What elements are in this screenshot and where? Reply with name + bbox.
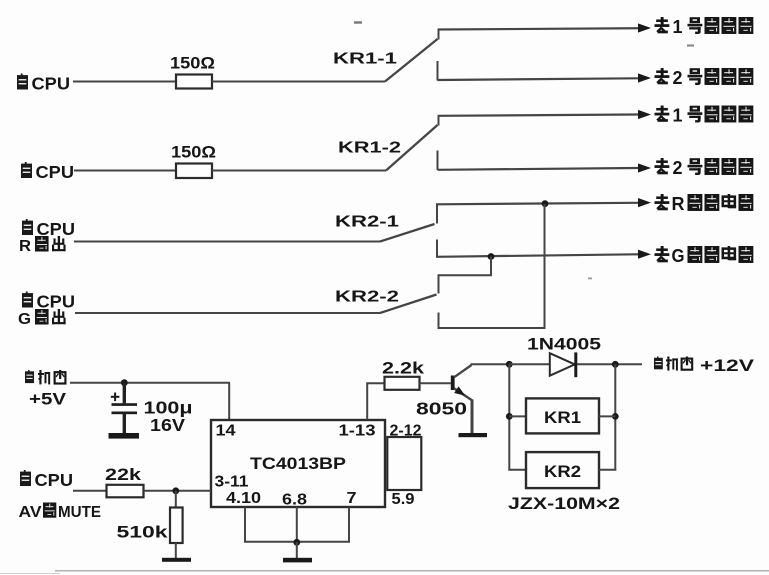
node label 自CPU row1 xyxy=(17,74,70,94)
junction node below pin 6.8 xyxy=(293,539,300,546)
relay coil KR1 body xyxy=(526,398,599,433)
resistor R3 2.2k body xyxy=(385,377,420,390)
svg-text:2.2k: 2.2k xyxy=(382,360,425,378)
type label JZX-10M×2 xyxy=(508,494,620,513)
IC bottom pin wires 4.10 / 6.8 / 7 xyxy=(244,507,350,542)
transistor Q1 8050 base bar xyxy=(451,376,455,391)
svg-text:2-12: 2-12 xyxy=(390,423,422,440)
+5V rail wire xyxy=(70,383,230,420)
pin label 1-13 xyxy=(339,423,376,440)
pin label 4.10 xyxy=(226,490,261,507)
svg-text:5.9: 5.9 xyxy=(392,491,415,508)
pin label 5.9 xyxy=(392,491,415,508)
svg-text:22k: 22k xyxy=(105,466,142,484)
svg-text:G: G xyxy=(18,311,31,328)
svg-text:JZX-10M×2: JZX-10M×2 xyxy=(508,494,620,513)
value label 150Ω R2 xyxy=(171,144,216,162)
label KR1-1 xyxy=(333,51,397,68)
svg-text:R: R xyxy=(19,238,31,255)
svg-text:6.8: 6.8 xyxy=(282,492,307,509)
value label 510k xyxy=(117,524,169,542)
junction node at capacitor tap xyxy=(121,379,128,386)
capacitor polarity plus sign xyxy=(111,393,120,402)
svg-text:TC4013BP: TC4013BP xyxy=(250,454,346,473)
ground bar below Q1 emitter xyxy=(459,433,488,437)
relay contact KR2-2 blade xyxy=(380,295,437,314)
svg-text:AV: AV xyxy=(19,504,42,521)
KR2-2 lower contact and wire up to R display line xyxy=(438,204,545,329)
transistor Q1 collector xyxy=(454,364,510,377)
resistor R4 22k body xyxy=(107,485,144,498)
power label 自机内 +12V xyxy=(654,357,754,376)
IC name label TC4013BP xyxy=(250,454,346,473)
svg-text:R: R xyxy=(672,194,685,214)
net label 去1号存储器 row1 xyxy=(655,17,754,37)
svg-text:G: G xyxy=(672,246,685,266)
junction node on G display line xyxy=(488,253,495,260)
value label 2.2k xyxy=(382,360,425,378)
junction node right bus at KR1 xyxy=(612,413,619,420)
arrow to 去1号存储器 row1 xyxy=(638,23,651,32)
scan artifact speck right of KR1-1 xyxy=(687,44,694,46)
label KR1 xyxy=(544,409,581,427)
arrow to 去1号存储器 row2 xyxy=(638,110,651,119)
node label 自CPU AV或MUTE xyxy=(19,470,102,521)
value label 100μ xyxy=(144,398,193,418)
label KR2-2 xyxy=(335,289,399,306)
scan artifact smear bottom edge xyxy=(0,571,769,574)
svg-text:7: 7 xyxy=(347,490,357,507)
power label 自机内 +5V xyxy=(25,370,66,409)
resistor R2 150 ohm body xyxy=(176,164,212,179)
svg-text:KR2-2: KR2-2 xyxy=(335,289,399,306)
arrow to 去2号存储器 row1 xyxy=(638,73,651,82)
net label 去G屏显电路 xyxy=(655,246,754,266)
label 8050 xyxy=(416,399,467,419)
node label 自CPU R输出 xyxy=(19,219,75,255)
arrow to 去2号存储器 row2 xyxy=(638,163,651,172)
svg-text:MUTE: MUTE xyxy=(58,504,101,521)
svg-text:KR2: KR2 xyxy=(544,463,581,481)
right relay bus vertical wire xyxy=(599,364,616,470)
svg-text:CPU: CPU xyxy=(36,162,75,182)
label KR2-1 xyxy=(335,214,399,231)
wire R2 to KR1-2 pivot xyxy=(212,170,386,172)
label KR1-2 xyxy=(338,140,401,157)
wire pin 1-13 up to 2.2k resistor xyxy=(366,383,384,420)
relay coil KR2 body xyxy=(526,452,599,488)
pin label 6.8 xyxy=(282,492,307,509)
node label 自CPU G输出 xyxy=(18,292,75,329)
junction node on R display line xyxy=(542,200,549,207)
svg-text:KR1-1: KR1-1 xyxy=(333,51,397,68)
KR1-2 lower contact and wire to storage 2 xyxy=(438,151,640,171)
diode D1 1N4005 xyxy=(550,352,578,377)
wire CPU to 22k xyxy=(73,490,107,492)
svg-text:3-11: 3-11 xyxy=(215,474,249,491)
wire 22k to IC pin 3-11 xyxy=(144,490,212,492)
svg-text:150Ω: 150Ω xyxy=(171,144,216,162)
pin label 7 xyxy=(347,490,357,507)
svg-text:+12V: +12V xyxy=(700,357,754,375)
wire KR1 to right bus xyxy=(599,415,615,417)
wire row1 from CPU to R1 xyxy=(73,81,176,83)
ground bar below 510k xyxy=(162,558,191,562)
junction node left bus at KR1 xyxy=(506,413,513,420)
svg-text:4.10: 4.10 xyxy=(226,490,261,507)
wire loop pins 2-12 to 5-9 right of IC xyxy=(387,437,421,490)
KR1-1 lower contact and wire to storage 2 xyxy=(438,61,640,81)
svg-text:KR1-2: KR1-2 xyxy=(338,140,401,157)
junction node at 510k tap xyxy=(172,487,179,494)
relay contact KR1-1 blade xyxy=(385,39,438,82)
wire row3 from CPU to KR2-1 pivot xyxy=(74,241,380,243)
ground bar below IC xyxy=(283,558,312,563)
wire link G-line down to KR2-2 upper contact xyxy=(439,257,493,294)
net label 去R屏显电路 xyxy=(655,194,754,214)
wire left bus to KR1 xyxy=(509,415,526,417)
svg-text:1: 1 xyxy=(673,106,683,126)
svg-text:1: 1 xyxy=(673,17,683,37)
value label 150Ω R1 xyxy=(170,55,215,73)
arrow to 去R屏显电路 xyxy=(638,198,651,207)
svg-text:KR2-1: KR2-1 xyxy=(335,214,399,231)
arrow to 去G屏显电路 xyxy=(638,250,651,259)
svg-text:510k: 510k xyxy=(117,524,169,542)
wire row4 from CPU to KR2-2 pivot xyxy=(75,312,380,314)
wire 2.2k to Q1 base xyxy=(420,382,451,384)
value label 1N4005 xyxy=(527,335,601,354)
ground bar below capacitor xyxy=(109,433,140,439)
junction node collector to relay bus xyxy=(506,361,513,368)
svg-text:2: 2 xyxy=(673,68,683,88)
relay contact KR1-2 blade xyxy=(386,125,438,171)
net label 去2号存储器 row2 xyxy=(655,158,754,178)
pin label 3-11 xyxy=(215,474,249,491)
net label 去1号存储器 row2 xyxy=(655,106,754,126)
wire junction to IC ground xyxy=(296,542,298,558)
capacitor C1 100u 16V xyxy=(112,383,138,434)
junction node right bus top xyxy=(612,361,619,368)
svg-text:14: 14 xyxy=(216,423,236,440)
svg-text:KR1: KR1 xyxy=(544,409,581,427)
wire node to diode anode xyxy=(509,363,550,365)
svg-text:CPU: CPU xyxy=(35,470,74,490)
svg-text:16V: 16V xyxy=(150,415,185,435)
transistor Q1 emitter with arrow xyxy=(454,386,472,433)
KR1-2 upper contact and wire to storage 1 xyxy=(438,115,640,126)
value label 22k xyxy=(105,466,142,484)
svg-text:1N4005: 1N4005 xyxy=(527,335,601,354)
label KR2 xyxy=(544,463,581,481)
resistor R1 150 ohm body xyxy=(176,75,212,89)
resistor R5 510k body xyxy=(170,491,183,559)
svg-text:150Ω: 150Ω xyxy=(170,55,215,73)
pin label 2-12 xyxy=(390,423,422,440)
IC U1 TC4013BP body xyxy=(211,420,385,507)
svg-text:+5V: +5V xyxy=(29,391,66,409)
svg-text:2: 2 xyxy=(673,158,683,178)
net label 去2号存储器 row1 xyxy=(655,68,754,88)
svg-text:1-13: 1-13 xyxy=(339,423,376,440)
value label 16V xyxy=(150,415,185,435)
svg-text:8050: 8050 xyxy=(416,399,467,419)
svg-text:CPU: CPU xyxy=(32,74,71,94)
left relay bus vertical wire xyxy=(508,364,526,470)
KR1-1 upper contact and wire to storage 1 xyxy=(438,28,640,39)
wire R1 to KR1-1 pivot xyxy=(212,81,385,83)
KR2-1 upper contact and wire to R display xyxy=(436,203,639,224)
KR2-1 lower contact and wire to G display xyxy=(436,240,639,258)
node label 自CPU row2 xyxy=(21,162,74,182)
pin label 14 xyxy=(216,423,236,440)
scan artifact speck top xyxy=(354,21,362,23)
wire diode cathode to +12V xyxy=(577,363,642,365)
relay contact KR2-1 blade xyxy=(380,224,435,242)
svg-text:CPU: CPU xyxy=(37,292,76,312)
scan artifact speck near KR2 wiring xyxy=(588,277,592,279)
wire row2 from CPU to R2 xyxy=(74,170,176,172)
